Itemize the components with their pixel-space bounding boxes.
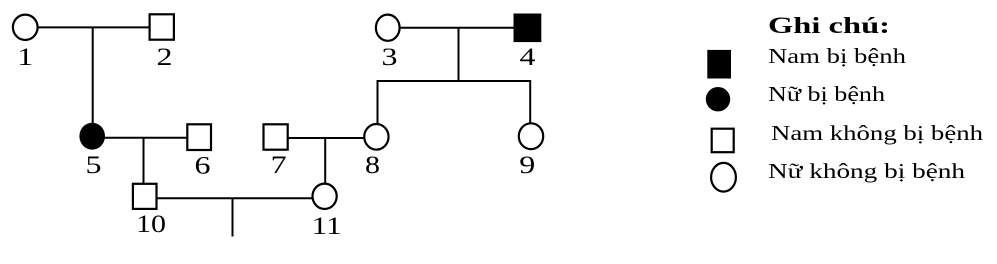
svg-text:7: 7 [271,152,287,179]
svg-text:Ghi chú:: Ghi chú: [768,13,890,38]
legend filled circle (affected female) [706,87,730,111]
svg-text:Nam không bị bệnh: Nam không bị bệnh [771,121,984,145]
wire drop from couple 1-2 to child 5 [92,27,94,124]
legend open square (unaffected male) [712,129,734,153]
wire drop to child 9 [529,80,531,123]
individual 6 (square, unaffected male) [187,124,211,150]
svg-text:6: 6 [195,153,211,180]
wire couple 7-8 [288,137,365,139]
individual 5 (filled circle, affected female) [79,123,105,150]
individual 8 (circle, unaffected female) [364,124,388,150]
wire drop to child 8 [377,80,379,124]
individual 11 (circle, unaffected female) [313,184,337,209]
svg-text:Nữ không bị bệnh: Nữ không bị bệnh [768,159,966,183]
svg-text:10: 10 [136,211,166,238]
svg-text:2: 2 [157,44,173,71]
wire drop from couple 3-4 to sibling bar [458,28,460,81]
wire couple 3-4 [399,27,514,29]
wire couple 5-6 [104,137,188,139]
individual 10 (square, unaffected male) [133,184,157,209]
svg-text:1: 1 [17,44,33,71]
individual 4 (filled square, affected male) [514,14,542,43]
individual 1 (circle, unaffected female) [13,15,38,40]
svg-text:3: 3 [382,44,398,71]
svg-text:8: 8 [365,152,380,179]
individual 3 (circle, unaffected female) [376,15,400,41]
wire couple 10-11 [156,197,313,199]
svg-text:9: 9 [519,152,535,179]
individual 2 (square, unaffected male) [150,14,174,39]
svg-text:Nam bị bệnh: Nam bị bệnh [768,44,907,68]
wire couple 1-2 [37,26,150,28]
legend open circle (unaffected female) [711,163,736,192]
legend filled square (affected male) [707,50,731,79]
svg-text:4: 4 [520,44,537,71]
svg-text:5: 5 [86,152,102,179]
svg-text:Nữ bị bệnh: Nữ bị bệnh [768,82,886,106]
wire drop from couple 5-6 to child 10 [143,138,145,184]
wire sibling bar of 8 and 9 [378,80,531,82]
svg-text:11: 11 [312,213,342,240]
individual 7 (square, unaffected male) [264,124,288,149]
individual 9 (circle, unaffected female) [519,123,543,149]
wire child stub below couple 10-11 [232,198,234,236]
wire drop from couple 7-8 to child 11 [324,138,326,184]
